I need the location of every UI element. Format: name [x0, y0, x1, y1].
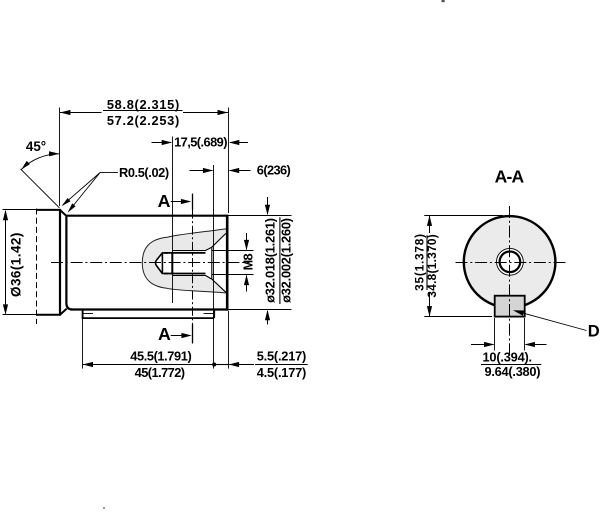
- thread minor line top: [164, 252, 206, 254]
- extension line ø32 top: [229, 215, 292, 217]
- center hole: [500, 251, 521, 272]
- svg-text:R0.5(.02): R0.5(.02): [119, 165, 169, 180]
- dimension ø32.018/ø32.002: [263, 197, 294, 325]
- drill point base line: [161, 253, 163, 274]
- svg-text:4.5(.177): 4.5(.177): [257, 365, 306, 380]
- collar top edge: [36, 209, 60, 211]
- svg-text:6(236): 6(236): [257, 162, 291, 177]
- hole chamfer circle: [497, 248, 524, 275]
- shaft end face (right edge): [226, 215, 229, 311]
- dimension 58.8/57.2: [60, 97, 228, 128]
- dimension A bottom: [158, 324, 192, 344]
- extension line keyway end: [213, 165, 215, 369]
- dimension 45 degrees: [21, 139, 60, 208]
- stray mark bottom: [103, 507, 105, 509]
- vertical centerline A-A: [509, 206, 511, 358]
- extension line key left end: [82, 319, 84, 369]
- stray mark top: [442, 0, 445, 2]
- section line bottom bar: [192, 324, 194, 343]
- thread minor line bottom: [164, 273, 206, 275]
- centerline (side view): [51, 262, 250, 264]
- svg-text:A-A: A-A: [495, 166, 525, 186]
- top chamfer: [60, 210, 67, 217]
- countersink entry (white): [206, 234, 226, 293]
- svg-text:58.8(2.315): 58.8(2.315): [107, 97, 180, 112]
- dimension 6(236): [190, 162, 291, 177]
- svg-text:Ø36(1.42): Ø36(1.42): [8, 232, 23, 297]
- svg-text:45°: 45°: [26, 139, 46, 154]
- entry chamfer flare bottom: [206, 276, 226, 293]
- key bottom edge: [82, 317, 215, 319]
- extension line M8 top: [212, 250, 254, 252]
- extension line ø32 bottom: [229, 309, 292, 311]
- extension line collar bottom: [3, 314, 37, 316]
- dimension M8: [240, 233, 255, 292]
- extension line collar top: [3, 209, 37, 211]
- leader D: [513, 310, 600, 340]
- svg-text:ø32.002(1.260): ø32.002(1.260): [279, 218, 294, 303]
- svg-text:D: D: [588, 322, 600, 340]
- keyway slot pocket (gray): [142, 229, 226, 293]
- svg-text:17,5(.689): 17,5(.689): [174, 135, 227, 150]
- chamfer edge vertical: [211, 247, 213, 279]
- shaft left edge with bottom fillet: [66, 216, 72, 310]
- svg-text:9.64(.380): 9.64(.380): [484, 364, 540, 379]
- section line top bar: [192, 194, 194, 210]
- bottom chamfer: [60, 309, 67, 315]
- extension line shaft end face upper: [228, 108, 230, 214]
- M8 tapped hole: white core band: [162, 253, 211, 273]
- thread major line bottom: [172, 275, 206, 277]
- shaft circle: [464, 216, 556, 308]
- shaft top edge: [66, 215, 228, 217]
- entry chamfer flare top: [206, 233, 226, 250]
- key block: [495, 296, 525, 317]
- svg-text:45(1.772): 45(1.772): [135, 365, 185, 380]
- dimension 5.5/4.5: [214, 348, 308, 380]
- svg-text:10(.394).: 10(.394).: [482, 350, 531, 365]
- extension line thread end: [172, 137, 174, 304]
- dimension Ø36: [3, 210, 23, 315]
- dimension 17,5: [152, 135, 249, 150]
- svg-text:A: A: [158, 324, 171, 344]
- horizontal centerline A-A: [456, 262, 568, 264]
- collar face: [59, 209, 61, 316]
- motor face dashed line: [36, 209, 38, 325]
- svg-text:5.5(.217): 5.5(.217): [257, 348, 306, 363]
- svg-text:45.5(1.791): 45.5(1.791): [130, 348, 191, 363]
- key chamfer edge left: [84, 313, 94, 315]
- svg-text:M8: M8: [240, 254, 255, 271]
- dimension 10/9.64: [471, 318, 547, 379]
- full thread end bar: [171, 252, 173, 274]
- shaft bottom edge: [71, 308, 228, 310]
- extension line M8 bottom: [212, 274, 254, 276]
- svg-text:A: A: [158, 191, 171, 211]
- leader R0.5: [62, 165, 169, 212]
- extension line shaft end face lower: [228, 311, 230, 369]
- key chamfer edge right: [204, 313, 214, 315]
- svg-text:34.8(1.370): 34.8(1.370): [425, 234, 439, 298]
- dimension 45.5/45: [83, 348, 217, 380]
- svg-text:57.2(2.253): 57.2(2.253): [107, 113, 180, 128]
- svg-text:ø32.018(1.261): ø32.018(1.261): [263, 218, 278, 303]
- key right face: [213, 309, 215, 318]
- dimension A top: [158, 191, 192, 211]
- drill point (bullet): [156, 253, 169, 274]
- extension line 35 bottom: [424, 316, 492, 318]
- key left face: [82, 310, 84, 318]
- extension line collar face up: [59, 108, 61, 207]
- thread major line top: [172, 250, 206, 252]
- extension line 35 top: [424, 215, 503, 217]
- collar bottom edge: [36, 314, 60, 316]
- dimension 35/34.8: [413, 216, 439, 317]
- section line A-A: [192, 210, 194, 344]
